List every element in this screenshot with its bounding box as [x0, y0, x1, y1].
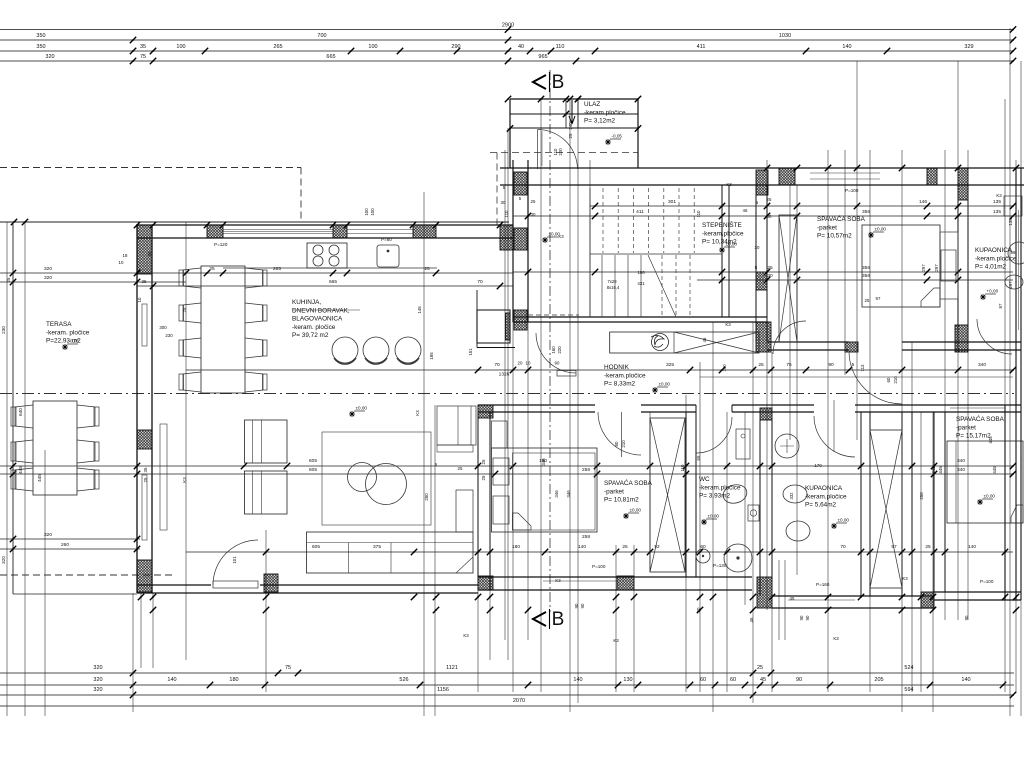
wall: stair south wall [513, 316, 767, 318]
svg-text:25: 25 [209, 266, 215, 272]
svg-text:135: 135 [993, 199, 1001, 205]
terrace chair left 2 [15, 440, 33, 463]
bottom witness tick clusters [138, 594, 144, 600]
wall pier [333, 225, 347, 238]
kitchen window P=120 [223, 229, 333, 231]
svg-text:-keram.pločice: -keram.pločice [699, 484, 741, 491]
svg-text:356: 356 [862, 209, 870, 215]
door arc ULAZ [538, 130, 578, 170]
svg-text:140: 140 [968, 544, 976, 550]
svg-text:-parket: -parket [817, 224, 837, 231]
svg-text:STEPENIŠTE: STEPENIŠTE [702, 220, 742, 229]
svg-text:340: 340 [957, 467, 965, 473]
svg-text:2070: 2070 [513, 698, 525, 704]
svg-text:20: 20 [518, 361, 523, 366]
dining chair left 4 [183, 372, 201, 392]
svg-text:346: 346 [541, 458, 546, 466]
wall: south wall bath block [772, 595, 934, 597]
svg-text:130: 130 [623, 677, 632, 683]
svg-text:100: 100 [364, 208, 369, 216]
kitchen sink [377, 245, 399, 267]
svg-text:P= 3,93m2: P= 3,93m2 [699, 493, 731, 500]
svg-text:±0,00: ±0,00 [630, 508, 642, 513]
svg-text:340: 340 [978, 362, 986, 368]
svg-text:90: 90 [805, 615, 810, 620]
svg-text:K3: K3 [902, 576, 908, 581]
svg-text:325: 325 [666, 362, 674, 368]
bath2 toilet [783, 485, 807, 503]
door arc bedroom3 [849, 351, 902, 404]
svg-text:320: 320 [93, 687, 102, 693]
svg-text:320: 320 [93, 677, 102, 683]
svg-text:45: 45 [790, 596, 795, 601]
carpet [322, 432, 431, 525]
svg-text:258: 258 [582, 467, 590, 473]
svg-text:320: 320 [44, 275, 52, 281]
svg-text:145: 145 [417, 306, 422, 314]
svg-text:526: 526 [399, 677, 408, 683]
floor drain [696, 549, 710, 563]
svg-text:45: 45 [749, 617, 754, 622]
svg-text:P= 4,01m2: P= 4,01m2 [975, 264, 1007, 271]
interior dimension lines [590, 205, 1013, 207]
svg-text:60: 60 [730, 677, 736, 683]
door arc WC [696, 417, 732, 453]
svg-text:180: 180 [229, 677, 238, 683]
svg-text:350: 350 [36, 33, 45, 39]
svg-text:25: 25 [6, 277, 11, 282]
svg-text:KUHINJA,: KUHINJA, [292, 299, 321, 306]
svg-text:25: 25 [481, 459, 486, 464]
svg-text:25: 25 [767, 197, 772, 202]
wardrobe X bedroom2 [650, 418, 685, 572]
svg-text:411: 411 [636, 209, 644, 215]
svg-text:110: 110 [680, 464, 685, 472]
svg-text:SPAVAĆA SOBA: SPAVAĆA SOBA [604, 478, 653, 487]
WC boiler [736, 429, 750, 459]
svg-text:K3: K3 [555, 578, 561, 583]
dim line mid-lower rooms [0, 465, 1013, 467]
svg-text:25: 25 [925, 544, 931, 550]
wall pier [845, 342, 858, 352]
sliding door panels west wall [142, 304, 147, 346]
svg-text:75: 75 [140, 54, 146, 60]
svg-text:1156: 1156 [437, 687, 449, 693]
terrace chair right 1 [77, 405, 95, 428]
dim line lower [0, 538, 140, 540]
wall: main interior wall left of stairs [512, 160, 514, 322]
cooktop [307, 243, 347, 268]
dashed line lower left terrace [0, 574, 176, 576]
svg-text:160: 160 [551, 346, 556, 354]
svg-text:K3: K3 [558, 234, 564, 239]
svg-text:25: 25 [622, 544, 628, 550]
svg-text:P=100: P=100 [980, 579, 994, 584]
svg-text:P=160: P=160 [816, 582, 830, 587]
stool 1 [332, 337, 358, 363]
svg-text:140: 140 [722, 364, 727, 372]
WC sink [748, 505, 759, 521]
svg-text:25: 25 [458, 466, 463, 471]
svg-text:97: 97 [876, 296, 881, 301]
wall pier [207, 225, 223, 238]
svg-text:196: 196 [637, 270, 645, 275]
top dimension line 2900 [0, 29, 1014, 31]
wall pier [500, 225, 513, 250]
svg-text:320: 320 [45, 54, 54, 60]
svg-text:332: 332 [789, 492, 794, 500]
wall: stair right wall [721, 185, 723, 317]
wall pier west mid [137, 430, 152, 449]
svg-text:329: 329 [964, 44, 973, 50]
svg-text:ULAZ: ULAZ [584, 101, 600, 108]
svg-text:40: 40 [518, 44, 524, 50]
bath1 sink [1008, 242, 1024, 264]
svg-text:K3: K3 [182, 477, 187, 483]
svg-text:P=100: P=100 [592, 564, 606, 569]
svg-text:90: 90 [799, 615, 804, 620]
svg-text:1326: 1326 [499, 372, 510, 378]
plant swirl [651, 334, 669, 351]
svg-text:35: 35 [140, 44, 146, 50]
svg-text:5: 5 [755, 265, 758, 271]
svg-text:445: 445 [931, 466, 936, 474]
svg-text:445: 445 [37, 474, 42, 482]
dining chair left 1 [183, 268, 201, 288]
svg-text:B: B [552, 609, 565, 630]
terrace chair left 3 [15, 468, 33, 491]
dining chair right 2 [245, 303, 263, 323]
svg-text:-0,05: -0,05 [612, 134, 623, 139]
entrance door with arrow [565, 99, 567, 128]
bath2 tub [786, 521, 810, 541]
svg-text:75: 75 [285, 665, 291, 671]
dashed outline at entrance [490, 152, 638, 154]
svg-text:90: 90 [796, 677, 802, 683]
svg-text:30: 30 [531, 212, 536, 217]
tv cabinet [437, 406, 476, 445]
svg-text:205: 205 [874, 677, 883, 683]
svg-text:35: 35 [142, 279, 147, 284]
svg-text:±0,00: ±0,00 [356, 406, 368, 411]
svg-text:346: 346 [566, 490, 571, 498]
svg-text:25: 25 [481, 475, 486, 480]
svg-text:30: 30 [767, 214, 772, 219]
svg-text:350: 350 [36, 44, 45, 50]
top dimension line row2 [0, 39, 1014, 41]
svg-text:WC: WC [699, 476, 710, 483]
svg-text:965: 965 [538, 54, 547, 60]
svg-text:-keram.pločice: -keram.pločice [975, 255, 1017, 262]
svg-text:110: 110 [504, 210, 509, 218]
svg-text:25: 25 [182, 307, 187, 312]
svg-text:KUPAONICA: KUPAONICA [975, 247, 1013, 254]
wall: bath right wall [860, 412, 862, 596]
svg-text:25: 25 [568, 133, 573, 138]
svg-text:-keram.pločice: -keram.pločice [805, 493, 847, 500]
bath1 counter [1004, 196, 1022, 216]
svg-text:665: 665 [326, 54, 335, 60]
svg-text:220: 220 [557, 346, 562, 354]
wall pier [514, 172, 527, 195]
stool 2 [363, 337, 389, 363]
svg-text:151: 151 [468, 348, 473, 356]
svg-text:K3: K3 [725, 322, 731, 327]
svg-text:230: 230 [1, 326, 6, 334]
stool 3 [395, 337, 421, 363]
bottom dimension line row1 [0, 672, 1014, 674]
svg-text:113: 113 [860, 364, 865, 372]
wall pier [478, 576, 493, 590]
vertical witness lines [6, 222, 8, 716]
wall: south wall living room [137, 584, 211, 586]
svg-text:25: 25 [865, 298, 870, 303]
svg-text:356: 356 [862, 265, 870, 271]
level marker living [349, 406, 367, 418]
svg-text:25: 25 [143, 477, 148, 482]
svg-text:KUPAONICA: KUPAONICA [805, 485, 843, 492]
wall pier [958, 185, 968, 200]
svg-text:75: 75 [786, 362, 792, 368]
round coffee table 1 [348, 463, 377, 492]
svg-text:100: 100 [370, 208, 375, 216]
svg-text:P= 15,17m2: P= 15,17m2 [956, 433, 991, 440]
svg-text:180: 180 [512, 544, 520, 550]
svg-text:60: 60 [886, 377, 891, 382]
svg-text:-keram. pločice: -keram. pločice [292, 324, 336, 331]
svg-text:300: 300 [159, 325, 167, 330]
svg-text:P= 3,12m2: P= 3,12m2 [584, 118, 616, 125]
svg-text:BLAGOVAONICA: BLAGOVAONICA [292, 316, 343, 323]
stairs STEPENISTE [590, 188, 722, 317]
svg-text:P= 5,64m2: P= 5,64m2 [805, 502, 837, 509]
svg-text:45: 45 [702, 337, 707, 342]
svg-text:170: 170 [814, 463, 822, 468]
svg-text:8x16,4: 8x16,4 [607, 285, 620, 290]
svg-text:210: 210 [893, 376, 898, 384]
svg-text:140: 140 [961, 677, 970, 683]
armchair 1 [245, 420, 288, 463]
svg-text:297: 297 [1008, 281, 1013, 289]
svg-text:240: 240 [568, 122, 573, 130]
svg-text:70: 70 [494, 362, 500, 368]
WC toilet [721, 482, 749, 506]
section marker B top [533, 72, 550, 92]
svg-text:265: 265 [273, 44, 282, 50]
svg-text:B: B [552, 72, 565, 93]
wall: south wall right bedroom [934, 591, 1021, 593]
svg-text:-keram.pločice: -keram.pločice [604, 372, 646, 379]
wall: ULAZ enclosure [510, 98, 638, 100]
wall pier [756, 170, 768, 195]
wall: south wall centre (bedroom) [478, 576, 752, 578]
svg-text:665: 665 [329, 279, 337, 285]
wall pier corridor [756, 322, 771, 352]
terrace chair left 1 [15, 405, 33, 428]
svg-text:10: 10 [526, 361, 531, 366]
svg-text:-keram. pločice: -keram. pločice [46, 329, 90, 336]
svg-text:101: 101 [232, 556, 237, 564]
svg-text:7x28: 7x28 [607, 279, 617, 284]
top dimension line row3 [0, 50, 1014, 52]
svg-text:90: 90 [580, 603, 585, 608]
svg-text:605: 605 [309, 467, 317, 473]
wall: bedroom2 left wall [477, 412, 479, 590]
svg-text:340: 340 [957, 458, 965, 464]
bed bedroom1 [862, 225, 940, 307]
svg-text:356: 356 [862, 273, 870, 279]
strikethrough on DNEVNI BORAVAK [292, 309, 360, 311]
svg-text:320: 320 [1, 556, 6, 564]
washing machine 2 [724, 544, 752, 572]
svg-text:135: 135 [1008, 218, 1013, 226]
svg-text:K3: K3 [415, 410, 420, 416]
level marker hodnik [652, 382, 670, 394]
svg-text:P=120: P=120 [214, 242, 228, 247]
svg-text:DNEVNI BORAVAK,: DNEVNI BORAVAK, [292, 307, 350, 314]
svg-text:258: 258 [582, 534, 590, 540]
horizontal centre dash-dot line [0, 393, 1014, 395]
wall pier [955, 325, 968, 352]
wardrobe X bedroom1 [779, 215, 797, 342]
dining table [201, 266, 245, 393]
wall pier [760, 408, 772, 420]
section marker B bottom [533, 609, 550, 629]
kitchen island block [477, 310, 510, 343]
svg-text:320: 320 [44, 266, 52, 272]
bed bedroom2 [492, 448, 598, 532]
bottom dimension line row4 [0, 705, 1014, 707]
svg-text:K3: K3 [463, 633, 469, 638]
terrace chair right 3 [77, 468, 95, 491]
door arc living-corridor [536, 333, 576, 373]
svg-text:210: 210 [621, 440, 626, 448]
svg-text:-parket: -parket [956, 424, 976, 431]
svg-text:P= 39,72 m2: P= 39,72 m2 [292, 332, 329, 339]
svg-text:605: 605 [312, 544, 320, 550]
svg-text:SPAVAĆA SOBA: SPAVAĆA SOBA [956, 414, 1005, 423]
level marker wc [701, 514, 719, 526]
svg-text:445: 445 [18, 466, 23, 474]
svg-text:60: 60 [700, 677, 706, 683]
wall: bedroom1 left wall [755, 185, 757, 342]
level marker stairs [719, 242, 737, 254]
svg-text:K3: K3 [996, 193, 1002, 198]
svg-text:320: 320 [44, 532, 52, 538]
svg-text:230: 230 [165, 333, 173, 338]
svg-text:90: 90 [555, 361, 560, 366]
svg-text:10: 10 [119, 260, 124, 265]
wall: west wall [136, 225, 138, 593]
svg-text:±0,00: ±0,00 [726, 242, 738, 247]
svg-text:605: 605 [309, 458, 317, 464]
svg-text:640: 640 [18, 408, 23, 416]
svg-text:K3: K3 [833, 636, 839, 641]
svg-text:±0,00: ±0,00 [875, 227, 887, 232]
wall: bedroom2/WC divider [685, 412, 687, 577]
wall pier [617, 576, 634, 590]
washing machine bath [775, 434, 799, 458]
svg-text:258: 258 [919, 492, 924, 500]
terrace chair right 2 [77, 440, 95, 463]
svg-text:70: 70 [477, 279, 483, 285]
svg-text:18: 18 [123, 253, 128, 258]
terrace door leaf and arc [213, 581, 258, 588]
svg-text:K3: K3 [613, 638, 619, 643]
svg-text:25: 25 [424, 266, 430, 272]
section line B-B vertical [549, 70, 551, 612]
roof overhang dashed line left [0, 167, 301, 169]
wall pier [921, 592, 934, 608]
top witness ticks [505, 96, 511, 102]
level marker ulaz [605, 134, 622, 146]
svg-text:SPAVAĆA SOBA: SPAVAĆA SOBA [817, 214, 866, 223]
svg-text:140: 140 [578, 544, 586, 550]
sofa [307, 532, 474, 573]
svg-text:297: 297 [921, 264, 926, 272]
level marker hall [542, 232, 560, 244]
svg-text:P= 10,81m2: P= 10,81m2 [604, 497, 639, 504]
svg-text:±0,00: ±0,00 [659, 382, 671, 387]
svg-text:70: 70 [840, 544, 846, 550]
level marker bedroom3 [977, 494, 995, 506]
wall pier [927, 168, 937, 185]
svg-text:+0,00: +0,00 [987, 289, 999, 294]
svg-text:411: 411 [697, 44, 706, 50]
dining chair left 2 [183, 303, 201, 323]
round coffee table 2 [366, 464, 407, 505]
wall: north wall right wing [500, 167, 1024, 169]
svg-text:285: 285 [273, 266, 281, 272]
svg-text:445: 445 [992, 466, 997, 474]
svg-text:90: 90 [964, 615, 969, 620]
wall: east edge [1015, 168, 1017, 600]
svg-text:K3: K3 [726, 182, 732, 187]
svg-text:346: 346 [554, 490, 559, 498]
svg-text:100: 100 [368, 44, 377, 50]
svg-text:110: 110 [696, 210, 701, 218]
svg-text:80: 80 [147, 251, 152, 256]
bed bedroom3 [947, 441, 1023, 523]
bath1 toilet [1005, 275, 1023, 289]
wall pier west top [137, 225, 152, 274]
dining chair left 3 [183, 338, 201, 358]
svg-text:431: 431 [637, 281, 645, 286]
svg-text:P=60: P=60 [381, 237, 392, 242]
svg-text:30: 30 [501, 200, 506, 205]
terrace edge lines [0, 221, 509, 223]
level marker terrace [62, 339, 79, 351]
svg-text:25: 25 [758, 362, 764, 368]
wall pier [756, 272, 767, 290]
wall pier tall [757, 577, 772, 608]
kitchen counter edge [223, 267, 437, 269]
wall: bedroom3 left wall [933, 412, 935, 592]
svg-text:-keram.pločice: -keram.pločice [584, 109, 626, 116]
svg-text:135: 135 [993, 209, 1001, 215]
svg-text:25: 25 [757, 665, 763, 671]
level marker bedroom2 [623, 508, 641, 520]
svg-text:98: 98 [1011, 250, 1016, 255]
corridor cabinet [610, 332, 759, 353]
dining chair right 1 [245, 268, 263, 288]
nightstand bedroom2 [492, 421, 508, 448]
svg-text:46: 46 [743, 208, 748, 213]
svg-text:140: 140 [167, 677, 176, 683]
svg-text:185: 185 [429, 352, 434, 360]
wall pier south [264, 574, 278, 592]
svg-text:-parket: -parket [604, 488, 624, 495]
